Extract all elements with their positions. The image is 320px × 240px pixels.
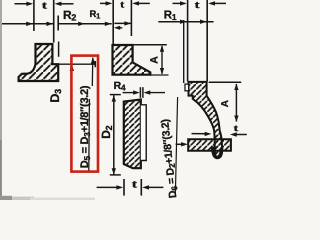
dim line D3 horizontal <box>59 63 96 65</box>
dim t bottom right arrow <box>142 185 163 189</box>
tab fig4 <box>185 84 189 91</box>
left arrow fig4 foot <box>176 142 188 146</box>
raised face strip fig3 <box>141 105 146 161</box>
scan edge left <box>0 0 2 200</box>
svg-text:A: A <box>220 100 231 107</box>
tick pair <box>139 87 141 98</box>
svg-text:D3: D3 <box>48 89 63 103</box>
svg-text:t: t <box>120 0 125 10</box>
extension line fig2 V2 <box>130 0 132 36</box>
tick D3 <box>94 61 96 67</box>
dim chain R1 segment <box>58 22 111 26</box>
extension line fig1 step <box>58 42 60 57</box>
leader t fig4 <box>230 132 247 136</box>
arrow D3 up <box>70 65 74 77</box>
extension line fig4 left <box>187 0 189 82</box>
extension line fig1 short <box>57 16 59 31</box>
foot bar fig4 <box>188 139 231 151</box>
extension line fig1 left <box>33 0 35 31</box>
svg-text:D2: D2 <box>99 125 114 138</box>
dim converging left <box>123 90 140 94</box>
dim t fig4 right arrow <box>208 1 226 5</box>
dim D2 vertical <box>110 95 121 175</box>
extension line fig1 right <box>53 0 55 43</box>
flange section fig1 <box>19 44 59 81</box>
stub wall fig4 <box>189 82 223 158</box>
dim R1 right line <box>158 20 213 24</box>
extension line fig4 tab <box>183 20 185 83</box>
dim t fig2 right arrow <box>132 1 150 5</box>
svg-text:t: t <box>42 1 48 12</box>
svg-text:A: A <box>149 56 161 64</box>
dim chain R2 segment <box>2 22 53 26</box>
extension line fig4 right <box>206 0 208 82</box>
dim line D5 vertical <box>91 57 95 86</box>
svg-text:R4: R4 <box>114 80 126 93</box>
stub wall tip thick <box>213 147 222 158</box>
dim t fig2 left arrow <box>100 1 112 5</box>
small left arrow y28 <box>114 26 122 30</box>
svg-text:R2: R2 <box>63 8 76 23</box>
dim t fig1 right arrow <box>55 2 74 6</box>
dim A fig2 vertical <box>160 45 164 74</box>
dim converging right <box>144 90 166 94</box>
svg-text:R1: R1 <box>164 10 177 23</box>
dim t bottom left arrow <box>97 185 124 189</box>
dim A fig4 vertical <box>234 84 238 122</box>
scan smudge bottom-left <box>0 197 34 200</box>
dim line D6 vertical <box>175 97 177 197</box>
svg-text:t: t <box>195 0 201 11</box>
top line fig2 right <box>133 44 167 46</box>
dim t bottom ticks <box>123 179 125 196</box>
red highlight box <box>71 56 98 172</box>
dim chain third segment <box>114 21 131 25</box>
flange section fig2 <box>113 45 151 75</box>
extension line fig2 V1 <box>112 0 114 44</box>
svg-text:t: t <box>132 179 138 191</box>
bottom tick fig2 <box>150 74 168 76</box>
svg-text:R1: R1 <box>90 9 101 21</box>
inner arrow fig4 <box>192 132 212 136</box>
ring section fig3 <box>124 100 141 169</box>
underline formula D5 <box>88 99 91 171</box>
dim t fig4 left arrow <box>173 1 187 5</box>
dim t fig1 left arrow <box>15 2 34 6</box>
svg-text:t: t <box>234 124 240 134</box>
top line fig4 <box>209 81 242 83</box>
svg-text:D5 = D3+1/8″(3.2): D5 = D3+1/8″(3.2) <box>79 85 92 168</box>
